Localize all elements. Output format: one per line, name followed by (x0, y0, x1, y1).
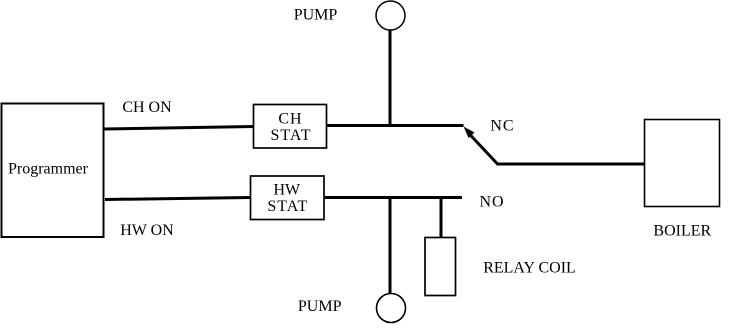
svg-text:NC: NC (490, 117, 514, 134)
wire CH ON: programmer to CH STAT (104, 127, 254, 130)
programmer box (2, 104, 104, 238)
wire: switch to boiler (497, 163, 645, 166)
svg-text:BOILER: BOILER (653, 223, 711, 240)
switch arm (relay contact) (468, 132, 498, 164)
svg-text:HW: HW (273, 182, 301, 199)
thermostat box HW STAT (251, 176, 325, 220)
wire: HW STAT to NO terminal (325, 196, 463, 199)
svg-text:CH ON: CH ON (122, 99, 172, 116)
boiler box (645, 120, 720, 207)
svg-text:STAT: STAT (267, 198, 308, 215)
svg-text:STAT: STAT (271, 127, 312, 144)
switch arrowhead at NC contact (464, 127, 475, 139)
thermostat box CH STAT (254, 105, 327, 149)
top pump circle (376, 1, 405, 30)
bottom pump circle (377, 294, 406, 323)
svg-text:CH: CH (278, 110, 302, 127)
wire HW ON: programmer to HW STAT (105, 198, 250, 200)
svg-text:RELAY COIL: RELAY COIL (483, 260, 576, 277)
relay coil box (425, 238, 456, 296)
svg-text:PUMP: PUMP (294, 7, 338, 24)
wire: CH STAT to NC switch contact (327, 124, 464, 127)
svg-text:PUMP: PUMP (298, 298, 342, 315)
svg-text:NO: NO (479, 194, 504, 211)
svg-text:Programmer: Programmer (8, 161, 89, 178)
wire: HW line junction down to bottom pump (389, 198, 392, 294)
wire: CH line junction up to top pump (389, 29, 392, 126)
wire: HW line junction down to relay coil (440, 198, 443, 241)
svg-text:HW ON: HW ON (120, 222, 174, 239)
